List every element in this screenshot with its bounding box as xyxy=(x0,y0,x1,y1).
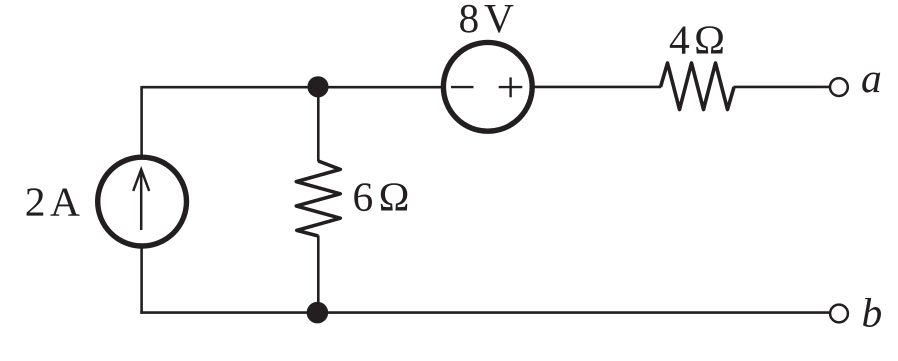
current source I1 (2 A) circle xyxy=(98,157,187,246)
terminal b open circle xyxy=(830,305,848,323)
wire top-left horizontal (left corner to 8V source) xyxy=(142,86,441,89)
svg-text:a: a xyxy=(861,55,882,101)
wire 4-ohm resistor to terminal a xyxy=(734,86,830,89)
svg-text:8 V: 8 V xyxy=(459,0,515,41)
resistor R1 4-ohm horizontal zigzag xyxy=(661,63,735,110)
current source arrow xyxy=(133,170,149,231)
resistor R2 6-ohm vertical zigzag xyxy=(296,161,340,236)
junction dot bottom node xyxy=(307,302,329,324)
svg-text:2 A: 2 A xyxy=(25,179,80,225)
junction dot top node xyxy=(307,76,328,97)
wire 8V source to 4-ohm resistor xyxy=(535,86,662,89)
wire left vertical upper (corner to current source top) xyxy=(140,86,143,156)
wire left vertical lower (current source bottom to bottom corner) xyxy=(140,248,143,314)
svg-text:b: b xyxy=(862,290,883,336)
wire middle vertical lower (6-ohm resistor to bottom junction) xyxy=(317,236,320,313)
svg-text:4 Ω: 4 Ω xyxy=(669,17,725,63)
voltage source plus sign xyxy=(499,77,523,97)
terminal a open circle xyxy=(830,78,848,96)
svg-text:6 Ω: 6 Ω xyxy=(353,174,410,220)
wire middle vertical upper (top junction to 6-ohm resistor) xyxy=(317,87,320,162)
wire bottom horizontal (left corner to terminal b) xyxy=(140,311,829,314)
voltage source V1 (8 V) circle xyxy=(443,42,532,131)
voltage source minus sign xyxy=(451,86,474,88)
